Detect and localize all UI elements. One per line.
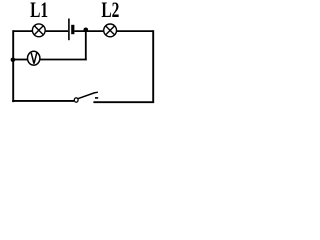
- switch S lever: [78, 92, 98, 98]
- switch S pivot circle: [74, 98, 78, 102]
- wire left vertical: [12, 30, 14, 102]
- battery short thick plate: [71, 25, 74, 34]
- wire top-left horizontal (corner to lamp L1): [13, 30, 32, 32]
- lamp L1: [32, 24, 45, 37]
- battery long plate: [68, 19, 70, 41]
- wire bottom-left horizontal: [12, 100, 74, 102]
- switch S fixed contact: [95, 97, 98, 99]
- junction node dot (top): [84, 28, 89, 33]
- wire right vertical: [152, 30, 154, 102]
- wire vertical connector to top junction: [85, 30, 87, 60]
- wire L1 to battery: [46, 30, 68, 32]
- voltmeter V: [28, 51, 40, 65]
- wire bottom-right horizontal: [93, 101, 154, 103]
- wire left to voltmeter: [13, 59, 27, 61]
- wire battery to lamp L2: [74, 30, 103, 32]
- wire voltmeter to vertical connector: [40, 59, 86, 61]
- wire L2 to top-right corner: [117, 30, 153, 32]
- svg-text:L2: L2: [101, 0, 119, 22]
- lamp L2: [104, 24, 117, 37]
- svg-text:L1: L1: [30, 0, 48, 22]
- junction node dot (left): [11, 58, 16, 63]
